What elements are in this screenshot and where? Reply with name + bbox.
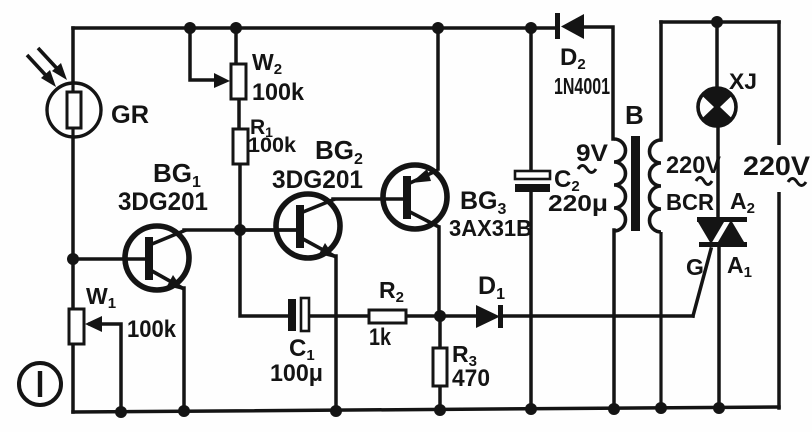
wire top rail after D2: [584, 27, 613, 139]
svg-text:GR: GR: [111, 101, 149, 129]
wire top rail: [73, 26, 556, 30]
wire left rail: [71, 28, 75, 412]
potentiometer W2: [214, 64, 246, 99]
wire base node to C1: [240, 231, 288, 316]
wire gate diagonal: [693, 249, 711, 316]
wire R3 bottom lead: [438, 386, 442, 410]
resistor R3: [433, 348, 447, 386]
photoresistor GR: [47, 83, 101, 137]
wire BG2 emitter down: [334, 256, 338, 411]
node top W2: [230, 22, 242, 34]
wire W2 to R1: [237, 98, 241, 129]
wire BG1 emitter down: [182, 288, 186, 411]
wire W2 wiper feed: [190, 28, 218, 80]
node bottom triac: [713, 402, 725, 414]
label 220V secondary tilde: [696, 178, 712, 185]
wire R3 top lead: [438, 316, 442, 348]
svg-text:100μ: 100μ: [270, 360, 323, 387]
svg-text:100k: 100k: [127, 316, 177, 343]
wire transformer secondary bottom: [659, 232, 662, 409]
svg-text:470: 470: [452, 365, 490, 392]
label 220V mains: [741, 145, 812, 192]
node left rail base: [67, 253, 79, 265]
wire BG3 emitter up: [436, 28, 440, 169]
diode D2: [555, 13, 584, 39]
svg-text:220V: 220V: [666, 152, 721, 179]
svg-text:1k: 1k: [369, 324, 392, 351]
transformer B core: [631, 136, 640, 231]
label 9V tilde: [578, 166, 596, 173]
svg-text:100k: 100k: [252, 79, 305, 106]
wire transformer primary bottom: [612, 230, 616, 409]
wire transformer secondary top: [659, 22, 663, 140]
capacitor C1: [288, 298, 309, 331]
svg-text:G: G: [686, 254, 704, 280]
wire BG2 collector to BG3 base: [333, 197, 382, 201]
wire W2 top lead: [234, 28, 238, 64]
svg-text:220μ: 220μ: [548, 190, 608, 216]
node base R1 C1: [234, 224, 246, 236]
potentiometer W1: [69, 309, 102, 344]
light arrow 1: [27, 55, 56, 87]
svg-text:1N4001: 1N4001: [554, 73, 610, 99]
triac BCR: [697, 217, 747, 247]
wire R1 bottom lead: [238, 163, 242, 230]
wire BG1 base: [73, 257, 148, 261]
node top BG3: [432, 22, 444, 34]
transistor BG2: [240, 194, 340, 258]
node bottom R3: [434, 404, 446, 416]
svg-text:3AX31B: 3AX31B: [449, 215, 532, 241]
wire triac A1 down: [717, 246, 721, 408]
resistor R1: [233, 129, 248, 164]
node R2 D1 R3: [434, 310, 446, 322]
svg-text:3DG201: 3DG201: [118, 188, 208, 216]
node top W2 tap: [184, 22, 196, 34]
wire W1 wiper: [90, 324, 121, 412]
wire lamp top lead: [715, 22, 719, 89]
svg-text:BCR: BCR: [666, 189, 714, 215]
node bottom BG1: [178, 405, 190, 417]
wire C2 top lead: [529, 28, 533, 172]
wire mains top rail: [661, 20, 779, 24]
wire lamp to triac: [716, 126, 720, 218]
node mains rail lamp: [711, 16, 723, 28]
svg-text:B: B: [625, 100, 644, 130]
wire BG1 collector to BG2 base: [184, 228, 298, 232]
transformer B secondary winding: [650, 140, 662, 232]
wire node to D1: [440, 314, 476, 318]
node bottom BG2: [330, 405, 342, 417]
wire mains right rail: [777, 22, 781, 408]
svg-text:9V: 9V: [576, 140, 608, 167]
svg-text:XJ: XJ: [729, 69, 757, 94]
node bottom primary: [608, 403, 620, 415]
resistor R2: [369, 310, 406, 323]
light arrow 2: [38, 48, 67, 80]
wire D1 to gate run: [502, 314, 693, 318]
transistor BG1: [125, 226, 189, 290]
transistor BG3: [382, 165, 447, 229]
node bottom secondary: [655, 402, 667, 414]
transformer B primary winding: [614, 139, 626, 231]
node top C2: [525, 22, 537, 34]
wire R2 to node: [406, 314, 440, 318]
svg-text:220V: 220V: [743, 151, 810, 181]
node bottom W1: [115, 406, 127, 418]
svg-text:3DG201: 3DG201: [272, 166, 363, 194]
figure number 1: [19, 363, 61, 405]
capacitor C2: [515, 171, 550, 192]
wire bottom rail: [73, 407, 779, 412]
node bottom C2: [525, 403, 537, 415]
diode D1: [476, 305, 503, 328]
wire BG3 collector down: [437, 227, 441, 316]
svg-text:100k: 100k: [248, 134, 296, 157]
wire C1 to R2: [309, 314, 369, 318]
wire C2 bottom lead: [529, 191, 533, 409]
lamp XJ: [698, 88, 737, 126]
